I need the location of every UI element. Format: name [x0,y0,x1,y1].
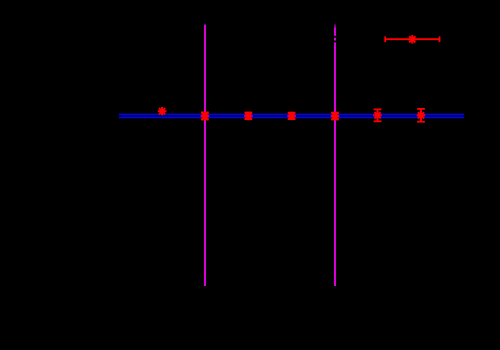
left magenta vertical line [204,25,206,287]
dimmed top of right magenta line [334,25,337,28]
data point 7 star [417,111,426,120]
blue horizontal line lower [119,116,464,118]
right magenta vertical line [334,25,336,287]
data point 6 error bar [374,109,382,121]
data point 6 star [373,111,382,120]
data point 4 star [287,112,296,121]
gap in right magenta line (legend text overlap) [334,41,337,43]
data point 2 error bar [201,112,209,119]
data point 3 star [244,112,253,121]
data point 4 error bar [288,113,296,119]
data point 2 star [201,112,210,121]
data point 5 error bar [331,113,339,120]
gap in right magenta line (legend text overlap) [334,36,337,38]
data point 7 error bar [417,109,425,122]
legend sample error bar [385,36,441,42]
data point 5 star [331,112,340,121]
data point 1 star [158,107,167,116]
data point 3 error bar [245,113,253,120]
blue horizontal line upper [119,113,464,115]
legend sample star [408,35,417,44]
